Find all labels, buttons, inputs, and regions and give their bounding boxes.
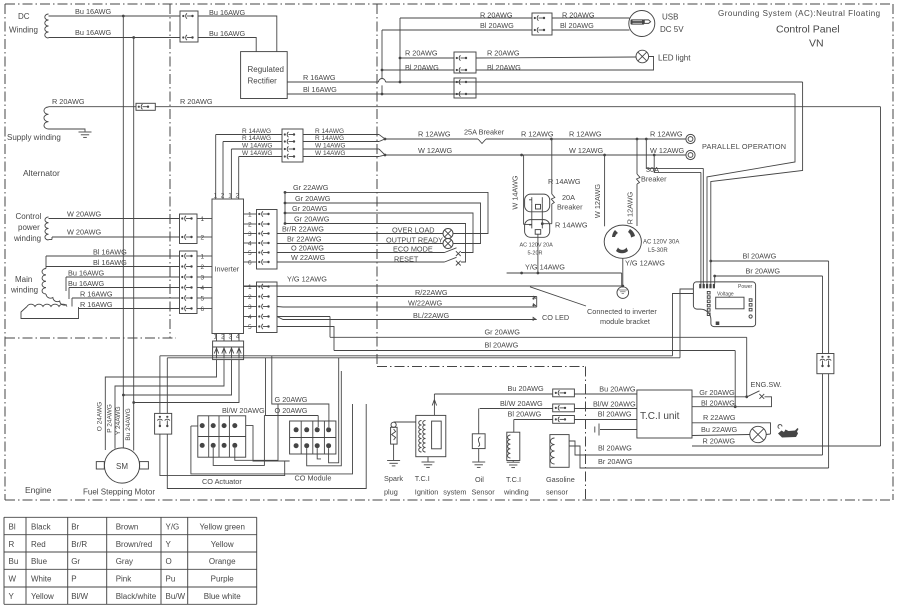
svg-text:2: 2 bbox=[248, 294, 252, 301]
svg-text:R 20AWG: R 20AWG bbox=[480, 10, 513, 19]
svg-text:Y 24AWG: Y 24AWG bbox=[115, 406, 122, 435]
svg-text:CO Actuator: CO Actuator bbox=[202, 477, 242, 486]
svg-text:R 12AWG: R 12AWG bbox=[418, 129, 451, 138]
svg-text:Y/G 14AWG: Y/G 14AWG bbox=[525, 263, 565, 272]
svg-text:Br 20AWG: Br 20AWG bbox=[746, 267, 781, 276]
svg-text:O 20AWG: O 20AWG bbox=[275, 406, 308, 415]
svg-text:Y/G 12AWG: Y/G 12AWG bbox=[625, 258, 665, 267]
svg-text:W 20AWG: W 20AWG bbox=[67, 209, 102, 218]
svg-text:P: P bbox=[71, 575, 76, 584]
svg-text:Regulated: Regulated bbox=[248, 65, 284, 74]
svg-text:Br/R 22AWG: Br/R 22AWG bbox=[282, 225, 324, 234]
svg-text:R 14AWG: R 14AWG bbox=[548, 177, 581, 186]
svg-text:2: 2 bbox=[248, 221, 252, 228]
svg-text:W 14AWG: W 14AWG bbox=[242, 150, 272, 157]
svg-text:Inverter: Inverter bbox=[215, 265, 240, 274]
svg-text:Alternator: Alternator bbox=[23, 168, 60, 178]
svg-text:DC 5V: DC 5V bbox=[660, 25, 684, 34]
svg-text:Pink: Pink bbox=[116, 575, 133, 584]
svg-text:3: 3 bbox=[201, 275, 205, 282]
svg-text:2: 2 bbox=[201, 235, 205, 242]
svg-text:Bl 16AWG: Bl 16AWG bbox=[93, 248, 127, 257]
svg-text:O 24AWG: O 24AWG bbox=[97, 402, 104, 431]
svg-text:Bl 20AWG: Bl 20AWG bbox=[405, 63, 439, 72]
svg-text:1: 1 bbox=[201, 216, 205, 223]
svg-text:Br 22AWG: Br 22AWG bbox=[287, 235, 322, 244]
svg-text:Bu 16AWG: Bu 16AWG bbox=[209, 29, 246, 38]
svg-text:Yellow: Yellow bbox=[31, 592, 54, 601]
svg-text:R 16AWG: R 16AWG bbox=[80, 300, 113, 309]
svg-text:Y: Y bbox=[166, 540, 172, 549]
svg-text:Bl 20AWG: Bl 20AWG bbox=[485, 340, 519, 349]
svg-text:DC: DC bbox=[18, 12, 30, 21]
svg-text:R 20AWG: R 20AWG bbox=[703, 437, 736, 446]
svg-text:R 12AWG: R 12AWG bbox=[626, 191, 635, 224]
svg-text:L5-30R: L5-30R bbox=[648, 248, 668, 254]
svg-text:Bl 20AWG: Bl 20AWG bbox=[598, 410, 632, 419]
svg-text:2: 2 bbox=[221, 192, 225, 199]
svg-text:Bu 16AWG: Bu 16AWG bbox=[75, 7, 112, 16]
svg-text:Black/white: Black/white bbox=[116, 592, 157, 601]
svg-text:Black: Black bbox=[31, 523, 52, 532]
svg-text:G 20AWG: G 20AWG bbox=[275, 395, 308, 404]
svg-text:Bl: Bl bbox=[9, 523, 16, 532]
svg-text:Bu 16AWG: Bu 16AWG bbox=[75, 28, 112, 37]
svg-text:sensor: sensor bbox=[546, 488, 568, 497]
svg-text:R 16AWG: R 16AWG bbox=[80, 290, 113, 299]
svg-text:2: 2 bbox=[201, 264, 205, 271]
svg-text:Power: Power bbox=[738, 284, 753, 290]
svg-text:Bu 16AWG: Bu 16AWG bbox=[68, 269, 105, 278]
svg-text:Bl 20AWG: Bl 20AWG bbox=[560, 21, 594, 30]
svg-text:ENG.SW.: ENG.SW. bbox=[751, 380, 782, 389]
svg-text:Gr 20AWG: Gr 20AWG bbox=[295, 194, 331, 203]
svg-text:Red: Red bbox=[31, 540, 46, 549]
svg-text:1: 1 bbox=[214, 192, 218, 199]
svg-text:1: 1 bbox=[248, 211, 252, 218]
svg-text:Control: Control bbox=[16, 212, 42, 221]
svg-text:winding: winding bbox=[503, 488, 529, 497]
svg-text:LED light: LED light bbox=[658, 53, 691, 62]
svg-text:W 12AWG: W 12AWG bbox=[569, 146, 604, 155]
svg-text:5: 5 bbox=[201, 296, 205, 303]
svg-text:Orange: Orange bbox=[209, 557, 236, 566]
svg-text:R 14AWG: R 14AWG bbox=[555, 221, 588, 230]
svg-text:O 20AWG: O 20AWG bbox=[291, 244, 324, 253]
svg-text:4: 4 bbox=[201, 285, 205, 292]
svg-text:Control Panel: Control Panel bbox=[776, 24, 840, 36]
svg-text:Yellow: Yellow bbox=[211, 540, 234, 549]
svg-text:Bu/W: Bu/W bbox=[166, 592, 186, 601]
svg-text:Y/G 12AWG: Y/G 12AWG bbox=[287, 274, 327, 283]
svg-text:1: 1 bbox=[248, 284, 252, 291]
svg-text:Fuel Stepping Motor: Fuel Stepping Motor bbox=[83, 488, 155, 497]
svg-text:Y: Y bbox=[9, 592, 15, 601]
svg-text:Bl 20AWG: Bl 20AWG bbox=[701, 398, 735, 407]
svg-text:Gr: Gr bbox=[71, 557, 80, 566]
svg-text:25A Breaker: 25A Breaker bbox=[464, 127, 505, 136]
svg-text:White: White bbox=[31, 575, 52, 584]
svg-text:Bu 22AWG: Bu 22AWG bbox=[701, 425, 738, 434]
svg-text:Bl/W: Bl/W bbox=[71, 592, 88, 601]
svg-text:Purple: Purple bbox=[211, 575, 235, 584]
svg-text:AC 120V 30A: AC 120V 30A bbox=[643, 240, 679, 246]
svg-text:Spark: Spark bbox=[384, 474, 403, 483]
svg-text:winding: winding bbox=[13, 234, 41, 243]
svg-text:W 22AWG: W 22AWG bbox=[291, 253, 326, 262]
svg-text:Brown/red: Brown/red bbox=[116, 540, 152, 549]
svg-text:Gr 20AWG: Gr 20AWG bbox=[699, 388, 735, 397]
svg-text:Blue white: Blue white bbox=[204, 592, 241, 601]
svg-text:Bu 20AWG: Bu 20AWG bbox=[508, 384, 545, 393]
svg-text:module bracket: module bracket bbox=[600, 317, 650, 326]
svg-text:Blue: Blue bbox=[31, 557, 48, 566]
svg-text:Sensor: Sensor bbox=[472, 488, 496, 497]
svg-text:Bu 16AWG: Bu 16AWG bbox=[68, 279, 105, 288]
svg-text:R 20AWG: R 20AWG bbox=[405, 48, 438, 57]
svg-text:R: R bbox=[9, 540, 15, 549]
svg-text:R 22AWG: R 22AWG bbox=[703, 413, 736, 422]
svg-text:Ignition: Ignition bbox=[415, 488, 439, 497]
svg-text:OVER LOAD: OVER LOAD bbox=[392, 225, 435, 234]
svg-text:system: system bbox=[443, 488, 466, 497]
svg-text:R 20AWG: R 20AWG bbox=[52, 97, 85, 106]
svg-text:W 20AWG: W 20AWG bbox=[67, 227, 102, 236]
svg-text:Main: Main bbox=[15, 275, 32, 284]
svg-text:T.C.I unit: T.C.I unit bbox=[640, 411, 680, 422]
svg-text:Br 20AWG: Br 20AWG bbox=[598, 457, 633, 466]
svg-text:5-20R: 5-20R bbox=[528, 251, 543, 257]
svg-text:6: 6 bbox=[248, 259, 252, 266]
svg-text:Voltage: Voltage bbox=[717, 292, 734, 298]
svg-text:1: 1 bbox=[228, 192, 232, 199]
svg-text:Bl/W 20AWG: Bl/W 20AWG bbox=[593, 400, 636, 409]
svg-text:W 12AWG: W 12AWG bbox=[593, 184, 602, 219]
svg-text:W/22AWG: W/22AWG bbox=[408, 298, 443, 307]
svg-text:5: 5 bbox=[248, 324, 252, 331]
svg-text:O: O bbox=[166, 557, 172, 566]
svg-text:Engine: Engine bbox=[25, 485, 52, 495]
svg-text:Breaker: Breaker bbox=[641, 174, 667, 183]
svg-text:5: 5 bbox=[248, 250, 252, 257]
svg-text:2: 2 bbox=[236, 192, 240, 199]
svg-text:20A: 20A bbox=[562, 193, 575, 202]
svg-text:W 14AWG: W 14AWG bbox=[242, 143, 272, 150]
svg-text:3: 3 bbox=[248, 304, 252, 311]
svg-text:Gr 20AWG: Gr 20AWG bbox=[485, 327, 521, 336]
svg-text:Brown: Brown bbox=[116, 523, 139, 532]
svg-text:Gr 20AWG: Gr 20AWG bbox=[292, 204, 328, 213]
svg-text:Bl 20AWG: Bl 20AWG bbox=[598, 444, 632, 453]
svg-text:winding: winding bbox=[10, 285, 38, 294]
svg-text:Bl 20AWG: Bl 20AWG bbox=[487, 63, 521, 72]
svg-text:R 20AWG: R 20AWG bbox=[487, 48, 520, 57]
svg-text:Y/G: Y/G bbox=[166, 523, 180, 532]
svg-text:Gasoline: Gasoline bbox=[546, 475, 575, 484]
svg-text:T.C.I: T.C.I bbox=[506, 475, 521, 484]
svg-text:R 16AWG: R 16AWG bbox=[303, 73, 336, 82]
svg-text:Bl 16AWG: Bl 16AWG bbox=[303, 85, 337, 94]
svg-text:Br: Br bbox=[71, 523, 79, 532]
svg-text:plug: plug bbox=[384, 488, 398, 497]
svg-text:W 12AWG: W 12AWG bbox=[418, 146, 453, 155]
svg-text:Supply winding: Supply winding bbox=[7, 133, 61, 142]
svg-text:T.C.I: T.C.I bbox=[415, 474, 430, 483]
svg-text:OUTPUT READY: OUTPUT READY bbox=[386, 236, 443, 245]
svg-text:BL/22AWG: BL/22AWG bbox=[413, 311, 450, 320]
svg-text:RESET: RESET bbox=[394, 255, 419, 264]
svg-text:R 20AWG: R 20AWG bbox=[180, 97, 213, 106]
svg-text:CO Module: CO Module bbox=[295, 474, 332, 483]
svg-text:Pu: Pu bbox=[166, 575, 176, 584]
svg-text:Winding: Winding bbox=[9, 26, 38, 35]
svg-text:Gr 20AWG: Gr 20AWG bbox=[294, 214, 330, 223]
svg-text:Oil: Oil bbox=[475, 475, 484, 484]
svg-text:R 14AWG: R 14AWG bbox=[242, 128, 271, 135]
svg-text:Bu: Bu bbox=[9, 557, 19, 566]
svg-text:SM: SM bbox=[116, 462, 128, 471]
svg-text:R/22AWG: R/22AWG bbox=[415, 288, 448, 297]
svg-text:W 14AWG: W 14AWG bbox=[511, 175, 520, 210]
svg-text:P 24AWG: P 24AWG bbox=[107, 404, 114, 433]
svg-text:USB: USB bbox=[662, 12, 678, 21]
svg-text:ECO MODE: ECO MODE bbox=[393, 245, 433, 254]
svg-text:R 12AWG: R 12AWG bbox=[521, 129, 554, 138]
svg-text:Bl/W 20AWG: Bl/W 20AWG bbox=[222, 406, 265, 415]
svg-text:AC 120V 20A: AC 120V 20A bbox=[520, 243, 554, 249]
svg-text:6: 6 bbox=[201, 306, 205, 313]
svg-text:Bu 20AWG: Bu 20AWG bbox=[599, 385, 636, 394]
svg-text:Br/R: Br/R bbox=[71, 540, 87, 549]
svg-text:CO LED: CO LED bbox=[542, 313, 569, 322]
svg-text:R 12AWG: R 12AWG bbox=[650, 129, 683, 138]
svg-text:Bl/W 20AWG: Bl/W 20AWG bbox=[500, 399, 543, 408]
svg-text:R 12AWG: R 12AWG bbox=[569, 129, 602, 138]
svg-text:4: 4 bbox=[248, 240, 252, 247]
svg-text:Gr 22AWG: Gr 22AWG bbox=[293, 183, 329, 192]
svg-text:Connected to inverter: Connected to inverter bbox=[587, 307, 657, 316]
svg-text:power: power bbox=[18, 223, 40, 232]
svg-text:Bl 20AWG: Bl 20AWG bbox=[508, 410, 542, 419]
svg-text:Rectifier: Rectifier bbox=[248, 77, 278, 86]
svg-text:Grounding System (AC):Neutral: Grounding System (AC):Neutral Floating bbox=[718, 9, 881, 18]
svg-text:1: 1 bbox=[201, 254, 205, 261]
svg-text:W: W bbox=[9, 575, 17, 584]
svg-text:Breaker: Breaker bbox=[557, 202, 583, 211]
svg-text:VN: VN bbox=[809, 38, 824, 50]
svg-text:Yellow green: Yellow green bbox=[199, 523, 245, 532]
svg-text:Bl 16AWG: Bl 16AWG bbox=[93, 258, 127, 267]
svg-text:4: 4 bbox=[248, 314, 252, 321]
svg-text:Gray: Gray bbox=[116, 557, 133, 566]
svg-text:PARALLEL OPERATION: PARALLEL OPERATION bbox=[702, 142, 786, 151]
svg-text:Bl 20AWG: Bl 20AWG bbox=[480, 21, 514, 30]
svg-text:Bl 20AWG: Bl 20AWG bbox=[743, 252, 777, 261]
svg-text:R 14AWG: R 14AWG bbox=[242, 135, 271, 142]
svg-text:Bu 24AWG: Bu 24AWG bbox=[125, 408, 132, 440]
svg-text:W 12AWG: W 12AWG bbox=[650, 146, 685, 155]
svg-text:3: 3 bbox=[248, 231, 252, 238]
